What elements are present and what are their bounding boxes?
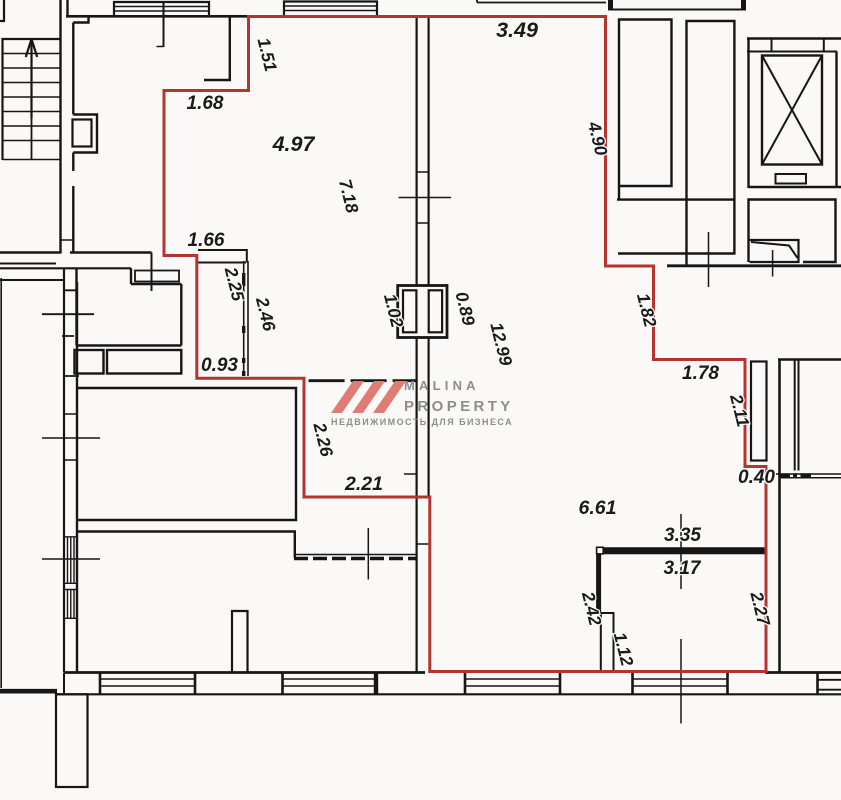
svg-text:1.66: 1.66: [188, 230, 225, 251]
left wall x64: [63, 268, 65, 672]
closet top wall black: [198, 250, 247, 263]
elevator inner top wall: [747, 51, 837, 53]
staircase outer box: [3, 39, 60, 160]
big room left wall x77: [76, 282, 78, 672]
cabinet B: [107, 350, 181, 374]
tick y474 left of wall: [404, 473, 417, 475]
window W1 inner lines: [114, 7, 209, 12]
elevator door jamb left: [771, 39, 773, 52]
thick wall 2.42 vertical: [596, 554, 601, 613]
stair shaft right wall: [59, 0, 61, 254]
closet side wall x151.5: [151, 253, 153, 292]
elevator shaft right wall: [835, 52, 837, 189]
cabinet A: [75, 350, 104, 374]
door leaf diagonal: [751, 242, 798, 258]
window W1 divider going into room: [163, 2, 165, 47]
bottom band top line right: [765, 671, 841, 674]
niche in hall wall: [73, 115, 97, 153]
bottom band top line left: [64, 671, 425, 674]
room 2 top wall: [77, 532, 295, 559]
red unit boundary polygon: [164, 17, 766, 672]
svg-text:0.40: 0.40: [738, 467, 775, 488]
staircase center line: [31, 39, 33, 160]
wall ticks x64: [64, 414, 77, 460]
middle wall left line lower: [416, 338, 418, 673]
room R2 tall rectangle: [687, 21, 735, 266]
band window panel lines: [100, 679, 728, 686]
room R1 tall rectangle: [619, 20, 672, 200]
top right wall y9.5: [608, 9, 746, 11]
bottom middle wall pair: [232, 611, 248, 672]
elevator counterweight box: [776, 174, 807, 184]
bathroom room box: [77, 268, 182, 345]
corridor wall y252.5 left part: [0, 251, 61, 253]
vent window outer box: [398, 286, 447, 338]
wall stub top x67: [66, 0, 68, 16]
wall y199.6 under R1 R2: [617, 198, 734, 200]
middle wall right line lower: [428, 338, 430, 498]
elevator top wall: [747, 37, 841, 39]
window W2 inner lines: [284, 6, 377, 11]
elevator shaft bottom: [749, 186, 841, 188]
left window band lines: [0, 267, 131, 269]
staircase treads: [3, 54, 60, 160]
threshold lines right: [776, 474, 841, 478]
top thin wall y2.5 above red: [477, 0, 606, 3]
tick x772 lower: [772, 250, 774, 277]
long tick y197.5: [399, 197, 452, 199]
window W1 top line: [114, 2, 209, 16]
stairwell left wall top notch: [0, 0, 4, 21]
svg-text:1.68: 1.68: [187, 93, 224, 114]
door tick between shaft walls: [61, 239, 74, 241]
wall y359.5 right: [778, 358, 841, 360]
hall left wall lower: [72, 186, 74, 254]
column blob right: [741, 0, 746, 10]
tick x681 upper: [680, 514, 682, 589]
tick x681 lower: [680, 639, 682, 724]
wall pair x794.7 x798.5: [795, 360, 799, 471]
closet wall dashes: [242, 273, 245, 376]
staircase up arrow: [30, 46, 32, 118]
logo stripe 1: [331, 381, 364, 413]
hall left wall upper: [72, 23, 74, 115]
sliding wall thin line: [294, 554, 417, 556]
logo stripe 2: [352, 381, 385, 413]
hatch band 1: [64, 537, 77, 584]
svg-text:3.17: 3.17: [664, 558, 702, 579]
tick x368: [367, 528, 369, 580]
svg-text:4.97: 4.97: [272, 132, 316, 156]
svg-text:3.49: 3.49: [496, 18, 538, 42]
door jamb 1.12: [601, 613, 614, 672]
sliding wall dashed thick: [294, 557, 417, 560]
right panel lines: [818, 680, 841, 690]
middle wall right line upper: [428, 17, 430, 286]
middle wall left line upper: [416, 17, 418, 286]
bottom band bottom line: [55, 693, 841, 695]
top exterior wall: [66, 15, 250, 18]
svg-text:2.21: 2.21: [344, 473, 383, 495]
threshold thick dashes: [780, 473, 811, 477]
middle wall ticks: [417, 172, 429, 544]
elevator door jamb right: [823, 39, 825, 52]
pillar below band: [56, 694, 88, 787]
closet double wall verticals: [244, 261, 248, 376]
door box in shaft box2: [750, 240, 799, 262]
svg-text:MALINA: MALINA: [404, 378, 480, 393]
logo stripe 3: [373, 381, 406, 413]
vent window inner box right: [429, 290, 442, 332]
left exterior edge: [0, 278, 2, 688]
column blob left: [608, 0, 613, 10]
svg-text:НЕДВИЖИМОСТЬ ДЛЯ БИЗНЕСА: НЕДВИЖИМОСТЬ ДЛЯ БИЗНЕСА: [331, 417, 513, 427]
band panel dividers: [100, 673, 818, 695]
corridor wall band second line: [0, 263, 56, 265]
left rooms wall tick y314: [42, 313, 94, 315]
thick wall 3.35: [600, 547, 766, 554]
corridor wall y252.5: [70, 251, 152, 253]
pier rectangle right of red: [751, 362, 767, 461]
vent window inner box left: [403, 290, 416, 332]
hall left wall mid: [72, 153, 74, 172]
tick at divider end: [157, 46, 164, 48]
door ticks on left wall: [62, 290, 79, 376]
hall top wall jog: [73, 16, 88, 22]
bottom thick piece left: [0, 689, 57, 694]
band left end connector: [63, 673, 65, 695]
shaft box 2: [749, 200, 836, 263]
thick band divider x376: [374, 673, 378, 695]
elevator shaft left wall: [747, 39, 749, 189]
elevator cab X diagonals: [762, 56, 822, 165]
bathroom inner step: [131, 268, 181, 284]
svg-text:6.61: 6.61: [579, 497, 617, 519]
window W2 top line: [284, 2, 377, 17]
long dimension ticks left: [42, 438, 100, 559]
wall y253.5: [618, 252, 736, 255]
wall x779.5: [778, 359, 781, 673]
wall stub x230 into room: [204, 16, 230, 80]
hatch band 2: [64, 590, 77, 619]
tick x708: [708, 232, 710, 287]
niche inner box: [73, 120, 92, 147]
wall y265.8: [667, 264, 841, 267]
svg-text:1.78: 1.78: [682, 363, 719, 384]
svg-text:0.93: 0.93: [201, 355, 238, 376]
dashed open boundary y380.7: [309, 379, 417, 382]
closet top inner wall: [197, 262, 246, 264]
svg-text:PROPERTY: PROPERTY: [404, 398, 514, 415]
svg-text:3.35: 3.35: [664, 525, 701, 546]
big room 1 box: [77, 388, 296, 520]
bathroom duct box: [135, 271, 179, 282]
elevator cab box: [762, 56, 822, 165]
white notch at thick wall end: [597, 547, 604, 554]
